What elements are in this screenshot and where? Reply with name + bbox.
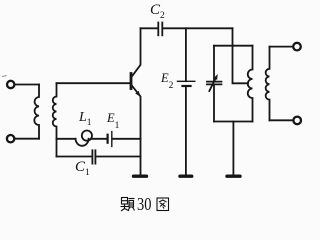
ground bar under E2 <box>180 174 192 177</box>
label E1 <box>107 111 119 131</box>
wire C1 to emitter node <box>96 156 141 158</box>
capacitor C2 <box>157 23 159 36</box>
capacitor C1 <box>91 150 93 163</box>
input terminal top-left <box>7 81 14 88</box>
ground bar under emitter <box>134 174 147 177</box>
wire supply drop to coil tap <box>233 28 248 83</box>
transformer T2 secondary winding <box>266 47 270 121</box>
wire tank box top <box>214 45 253 47</box>
wire base (secondary top to transistor base) <box>57 82 131 84</box>
transistor Q1 collector <box>132 28 141 76</box>
output terminal top-right <box>293 43 301 51</box>
label C2 <box>150 2 165 21</box>
wire top rail right of C2 <box>163 27 233 29</box>
variable capacitor arrow <box>209 78 215 91</box>
label L1 <box>79 110 92 128</box>
caption text 30 <box>137 194 151 215</box>
input terminal bottom-left <box>7 135 14 142</box>
transistor Q1 emitter with arrow <box>132 86 141 176</box>
wire C1 branch left <box>57 156 93 158</box>
output terminal bottom-right <box>293 117 301 125</box>
wire secondary bottom to terminal <box>270 119 294 121</box>
label E2 <box>161 71 173 91</box>
caption glyph 图 <box>157 198 169 211</box>
wire tank box left lower <box>213 85 215 122</box>
wire E2 branch from top rail <box>185 28 187 81</box>
wire secondary top to terminal <box>270 46 294 48</box>
wire tank bottom to ground <box>232 122 234 176</box>
transformer T1 primary winding <box>34 85 39 139</box>
battery E2 <box>178 80 195 82</box>
wire tank box bottom <box>214 121 253 123</box>
wire tank box left upper <box>213 46 215 81</box>
inductor L1 loop <box>76 139 89 146</box>
transformer T2 primary winding (tank coil) <box>248 46 253 122</box>
wire top rail left of C2 <box>141 27 158 29</box>
wire top-left terminal to primary <box>15 84 39 86</box>
ground bar under tank <box>227 174 240 177</box>
wire L1-E1 branch left <box>57 138 76 140</box>
transformer T1 secondary winding <box>53 83 57 156</box>
wire primary bottom to terminal <box>15 138 39 140</box>
label C1 <box>75 159 90 178</box>
speck artifact left edge <box>3 76 7 77</box>
wire L1 to E1 <box>92 138 107 140</box>
battery E1 <box>106 135 108 143</box>
transistor Q1 base bar <box>130 74 133 89</box>
variable capacitor CV plates <box>207 81 222 83</box>
wire E1 to emitter node <box>112 138 140 140</box>
wire E2 to ground <box>185 86 187 175</box>
caption glyph 题 <box>121 198 135 212</box>
